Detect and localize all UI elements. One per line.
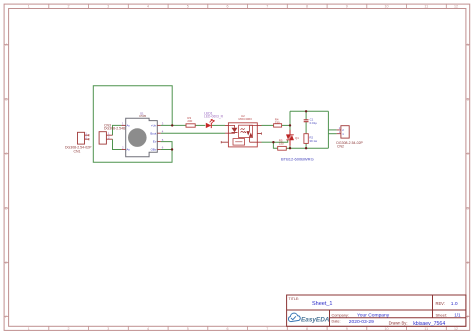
- svg-text:Q1: Q1: [295, 136, 299, 140]
- svg-text:11: 11: [424, 4, 428, 8]
- wire triac main vertical: [289, 111, 291, 148]
- svg-text:EasyEDA: EasyEDA: [301, 316, 330, 323]
- wire MOC pin6 to R4: [262, 124, 274, 126]
- node OBv/loop: [171, 148, 173, 150]
- svg-text:6: 6: [227, 327, 229, 331]
- wire snubber bottom rail: [290, 147, 328, 149]
- svg-text:10: 10: [385, 327, 389, 331]
- svg-text:2: 2: [68, 327, 70, 331]
- wire cap to R2: [305, 122, 307, 134]
- svg-text:CN2: CN2: [337, 145, 344, 149]
- wire R4 to node: [282, 124, 290, 126]
- svg-text:TITLE:: TITLE:: [289, 297, 300, 301]
- resistor R3 200: [186, 116, 195, 127]
- svg-text:1: 1: [28, 4, 30, 8]
- svg-text:Bout: Bout: [150, 131, 156, 135]
- pins: [221, 125, 228, 142]
- svg-text:2020-03-29: 2020-03-29: [349, 319, 374, 325]
- node triac bottom: [289, 147, 291, 149]
- wire CN3 pin1 to sensor pin1: [113, 125, 122, 135]
- svg-text:5: 5: [187, 327, 189, 331]
- svg-text:OBv: OBv: [151, 148, 157, 152]
- wire R2 to bottom rail: [305, 143, 307, 148]
- wire gate branch: [273, 140, 287, 142]
- resistor R2 39 1w (vertical): [304, 134, 318, 144]
- connector CN1: [65, 132, 92, 154]
- svg-text:+Un: +Un: [151, 124, 157, 128]
- wire Bout rail sensor pin4 to MOC pin2: [161, 132, 225, 134]
- wire rail1 sensor pin3 to R3: [161, 124, 186, 126]
- wire node to R5: [273, 142, 277, 148]
- wire to CN2 pin2: [328, 129, 336, 131]
- svg-text:C505: C505: [139, 114, 147, 118]
- node R4/triac: [289, 124, 291, 126]
- svg-text:C: C: [5, 152, 8, 156]
- svg-text:12: 12: [454, 327, 458, 331]
- svg-text:BTB12-600BWRG: BTB12-600BWRG: [281, 156, 314, 161]
- wire R3 to LED: [195, 124, 205, 126]
- svg-text:REV:: REV:: [436, 301, 445, 306]
- wire CN3 pin2 to sensor pin2: [113, 139, 122, 149]
- svg-text:LED-0603_R: LED-0603_R: [204, 115, 224, 119]
- svg-text:Drawn By:: Drawn By:: [389, 321, 408, 326]
- internal LED: [228, 125, 234, 127]
- sensor pin numbers: [122, 122, 164, 150]
- capacitor C1: [304, 117, 318, 125]
- zero-cross box: [233, 139, 245, 146]
- svg-text:3: 3: [107, 4, 109, 8]
- resistor R5 330: [278, 138, 287, 150]
- node rail1/loop: [171, 124, 173, 126]
- resistor R4 330: [274, 118, 282, 128]
- wire OBv pin to loop: [161, 149, 172, 151]
- wire to CN2 pin1: [328, 133, 336, 135]
- svg-text:10: 10: [385, 4, 389, 8]
- svg-text:11: 11: [424, 327, 428, 331]
- wire LED to MOC pin1: [212, 124, 225, 126]
- triac Q1: [281, 130, 314, 162]
- svg-text:12: 12: [454, 4, 458, 8]
- svg-text:Sheet:: Sheet:: [436, 313, 448, 318]
- svg-text:1.0: 1.0: [451, 301, 458, 307]
- svg-text:4: 4: [147, 4, 149, 8]
- svg-text:5: 5: [187, 4, 189, 8]
- svg-text:CN1: CN1: [74, 149, 81, 153]
- svg-text:330: 330: [275, 120, 280, 124]
- junction dots: [171, 110, 307, 151]
- internal photo-triac box: [239, 125, 253, 137]
- svg-text:C: C: [466, 152, 469, 156]
- svg-text:9: 9: [346, 327, 348, 331]
- svg-text:8: 8: [306, 327, 308, 331]
- sensor pin names: [127, 124, 157, 152]
- optocoupler U2 MOC3063: [221, 114, 261, 147]
- wire snubber right vertical: [327, 111, 329, 148]
- node R2 bottom: [305, 147, 307, 149]
- svg-text:Ev: Ev: [153, 140, 157, 144]
- svg-text:200: 200: [187, 119, 192, 123]
- svg-text:MOC3063: MOC3063: [239, 117, 253, 121]
- connector CN2: [336, 126, 363, 149]
- connector CN3: [99, 123, 130, 144]
- wire snubber top rail: [290, 110, 328, 112]
- node gate/R5: [272, 141, 274, 143]
- internal triac triangles: [246, 131, 250, 135]
- node cap top: [305, 110, 307, 112]
- svg-text:39 1w: 39 1w: [309, 139, 318, 143]
- svg-text:Your Company: Your Company: [357, 312, 390, 318]
- sensor S1 body: [126, 112, 158, 157]
- svg-text:Av: Av: [127, 124, 131, 128]
- svg-text:Sheet_1: Sheet_1: [312, 301, 333, 307]
- svg-text:D: D: [466, 206, 469, 210]
- svg-text:9: 9: [346, 4, 348, 8]
- svg-text:Date:: Date:: [332, 320, 341, 324]
- svg-text:1: 1: [28, 327, 30, 331]
- wire loop connecting +U rail, Ev and OBv nets: [93, 86, 336, 163]
- svg-text:7: 7: [266, 4, 268, 8]
- svg-text:3: 3: [107, 327, 109, 331]
- svg-text:0.01μ: 0.01μ: [310, 121, 318, 125]
- svg-text:2: 2: [68, 4, 70, 8]
- LED1: [204, 112, 224, 129]
- svg-text:6: 6: [227, 4, 229, 8]
- svg-text:D: D: [5, 206, 8, 210]
- svg-text:4: 4: [147, 327, 149, 331]
- title block: [287, 295, 466, 326]
- wire R5 to bottom node: [286, 147, 290, 149]
- svg-text:Company:: Company:: [332, 313, 349, 317]
- svg-text:7: 7: [266, 327, 268, 331]
- svg-text:8: 8: [306, 4, 308, 8]
- svg-text:Av: Av: [127, 148, 131, 152]
- EasyEDA logo: [288, 313, 329, 323]
- svg-text:kbisaev_7564: kbisaev_7564: [413, 321, 445, 327]
- wire MOC pin4 to node: [262, 141, 274, 143]
- sensor pins: [121, 125, 160, 149]
- wire cap top lead: [305, 111, 307, 119]
- svg-text:1/1: 1/1: [454, 313, 461, 318]
- svg-text:330: 330: [279, 141, 284, 145]
- wire loop: [93, 86, 172, 163]
